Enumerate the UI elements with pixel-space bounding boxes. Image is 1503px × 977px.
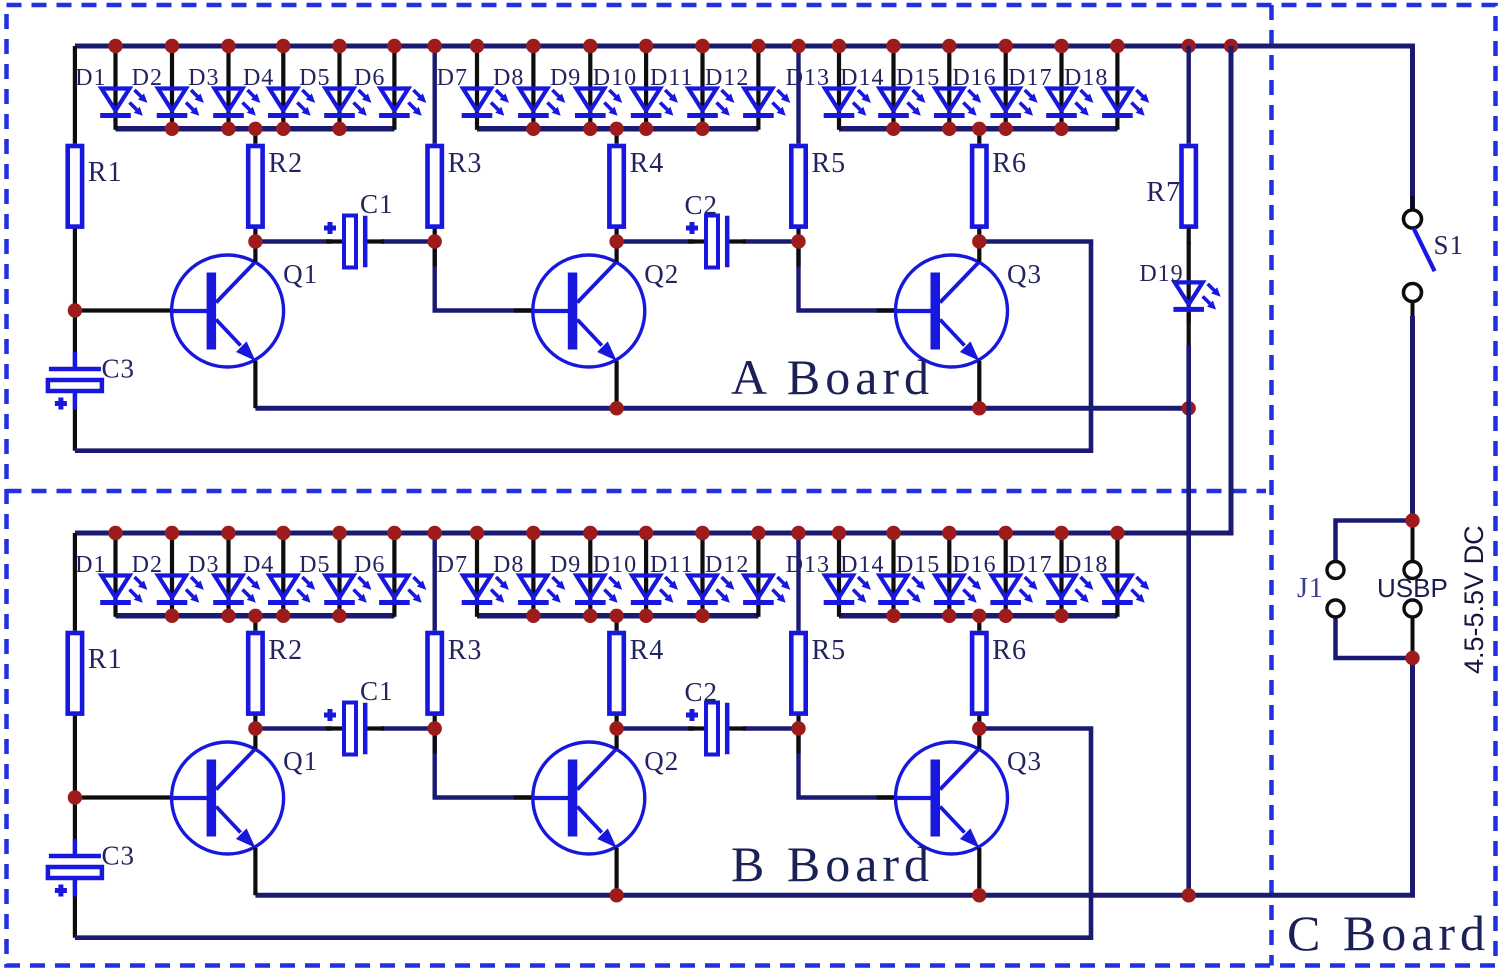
node: B cathode rail junction x=949.3: [942, 609, 956, 623]
wire: A feedback loop R6 node, right, down and along bottom: [75, 242, 1091, 451]
node: B cathode rail junction x=255.4: [248, 609, 262, 623]
svg-text:R3: R3: [448, 148, 483, 179]
svg-text:C3: C3: [102, 354, 136, 384]
wire: A LED group 2 cathode rail: [477, 126, 758, 132]
node: B top rail junction x=590.3: [583, 526, 597, 540]
node: B top rail junction x=477: [470, 526, 484, 540]
svg-text:D17: D17: [1008, 552, 1052, 578]
node: A cathode rail junction x=702.5: [695, 122, 709, 136]
node: J1 top junction: [1405, 513, 1419, 527]
svg-text:C1: C1: [360, 189, 394, 219]
wire: A R6 leads: [977, 129, 981, 144]
node: A collector row junction x=798.5: [791, 234, 805, 248]
svg-text:D8: D8: [493, 552, 524, 578]
svg-text:R6: R6: [992, 148, 1027, 179]
node: B top rail junction x=1117.4: [1110, 526, 1124, 540]
resistor R5 (A board): [791, 146, 846, 227]
node: B collector row junction x=979.3: [972, 721, 986, 735]
svg-text:R6: R6: [992, 635, 1027, 666]
wire: B board V+ top rail fed from A board rail: [75, 46, 1231, 533]
node: B top rail junction x=533.4: [526, 526, 540, 540]
LED D7 (B board): [437, 535, 509, 617]
node: A collector row junction x=434.7: [428, 234, 442, 248]
wire: B C3 bottom lead to bottom feedback wire: [73, 897, 77, 938]
LED D12 (B board): [705, 535, 790, 617]
LED D4 (B board): [243, 535, 315, 617]
svg-text:D15: D15: [896, 65, 940, 91]
wire: B R2 leads: [253, 616, 257, 631]
wire: A coupling C1 net from Q1 collector to R3 bottom: [255, 239, 332, 243]
LED D6 (B board): [354, 535, 426, 617]
node: A emitter rail junction x=616.6: [609, 401, 623, 415]
capacitor C3 (B board, polarized): [48, 839, 135, 897]
svg-text:D1: D1: [75, 65, 106, 91]
node: B top rail junction x=893.5: [886, 526, 900, 540]
svg-text:J1: J1: [1297, 573, 1324, 604]
resistor R3 (B board): [428, 633, 483, 714]
node: A top rail junction x=590.3: [583, 39, 597, 53]
wire: A R1 bottom lead to base node: [73, 228, 77, 311]
LED D5 (B board): [299, 535, 371, 617]
wire: B emitter ground rail: [255, 658, 1412, 895]
LED D4 (A board): [243, 48, 315, 130]
svg-text:D5: D5: [299, 65, 330, 91]
svg-text:R7: R7: [1146, 177, 1181, 208]
wire: A R3 bottom lead: [433, 228, 437, 242]
node: B cathode rail junction x=533.4: [526, 609, 540, 623]
transistor Q3 (B board, NPN): [896, 728, 1043, 895]
wire: B R5 top lead from rail: [796, 533, 800, 631]
capacitor C1 (A board, polarized): [324, 189, 394, 268]
svg-text:4.5-5.5V DC: 4.5-5.5V DC: [1459, 525, 1489, 674]
node: B cathode rail junction x=283.3: [276, 609, 290, 623]
svg-text:D7: D7: [437, 552, 468, 578]
wire: B base wire of Q1: [75, 795, 175, 799]
svg-text:D11: D11: [650, 65, 693, 91]
svg-text:D16: D16: [952, 65, 996, 91]
node: A top rail junction x=646.1: [639, 39, 653, 53]
LED D18 (B board): [1064, 535, 1149, 617]
svg-text:D12: D12: [705, 65, 749, 91]
wire: B feedback loop R6 node, right, down and along bottom: [75, 729, 1091, 938]
wire: B coupling C2 net from Q2 collector to R5 bottom: [617, 726, 694, 730]
resistor R4 (A board): [609, 146, 664, 227]
LED D3 (B board): [188, 535, 260, 617]
svg-text:D10: D10: [593, 552, 637, 578]
node: B top rail junction x=798.5: [791, 526, 805, 540]
wire: A R4 leads: [614, 129, 618, 144]
svg-text:C2: C2: [685, 677, 719, 707]
svg-text:R5: R5: [812, 148, 847, 179]
node: A Q1 base junction: [68, 303, 82, 317]
node: A collector row junction x=616.6: [609, 234, 623, 248]
node: A cathode rail junction x=616.6: [609, 122, 623, 136]
node: B cathode rail junction x=616.6: [609, 609, 623, 623]
connector J1 (C board): [1297, 521, 1413, 659]
resistor R2 (A board): [248, 146, 303, 227]
LED D12 (A board): [705, 48, 790, 130]
node: B top rail junction x=1005.7: [999, 526, 1013, 540]
svg-text:D9: D9: [550, 552, 581, 578]
svg-text:D1: D1: [75, 552, 106, 578]
node: A top rail junction x=702.5: [695, 39, 709, 53]
svg-text:D6: D6: [354, 552, 385, 578]
resistor R5 (B board): [791, 633, 846, 714]
node: B top rail junction x=172: [165, 526, 179, 540]
node: B collector row junction x=434.7: [428, 721, 442, 735]
node: B top rail junction x=758.4: [751, 526, 765, 540]
svg-text:R1: R1: [88, 644, 123, 675]
transistor Q2 (B board, NPN): [533, 728, 680, 895]
node: A top rail junction x=1005.7: [999, 39, 1013, 53]
resistor R6 (B board): [972, 633, 1027, 714]
LED D2 (A board): [132, 48, 204, 130]
node: A emitter rail junction x=1188.7: [1182, 401, 1196, 415]
LED D10 (A board): [593, 48, 678, 130]
wire: B LED group 1 cathode rail: [116, 613, 395, 619]
wire: S1 to J1/USBP positive node: [1410, 316, 1415, 521]
svg-text:Q1: Q1: [283, 259, 318, 289]
wire: A R5 bottom node to Q3 base: [799, 242, 899, 311]
LED D16 (B board): [952, 535, 1037, 617]
node: B top rail junction x=949.3: [942, 526, 956, 540]
node: B collector row junction x=616.6: [609, 721, 623, 735]
node: B cathode rail junction x=702.5: [695, 609, 709, 623]
wire: A base wire of Q1: [75, 308, 175, 312]
node: J1 bottom junction: [1405, 651, 1419, 665]
transistor Q3 (A board, NPN): [896, 241, 1043, 408]
node: A cathode rail junction x=1005.7: [999, 122, 1013, 136]
node: A emitter rail junction x=979.3: [972, 401, 986, 415]
wire: B LED group 3 cathode rail: [839, 613, 1117, 619]
LED D8 (A board): [493, 48, 565, 130]
svg-text:D19: D19: [1139, 261, 1183, 287]
svg-text:D12: D12: [705, 552, 749, 578]
node: B top rail junction x=646.1: [639, 526, 653, 540]
wire: B R3 bottom lead: [433, 715, 437, 729]
wire: R7 top lead from rail: [1186, 46, 1190, 144]
svg-text:Q1: Q1: [283, 746, 318, 776]
node: A cathode rail junction x=949.3: [942, 122, 956, 136]
svg-text:D3: D3: [188, 552, 219, 578]
node: B cathode rail junction x=339.5: [332, 609, 346, 623]
node: A top rail junction x=283.3: [276, 39, 290, 53]
wire: B left vertical R1 top lead: [73, 533, 77, 631]
svg-text:D17: D17: [1008, 65, 1052, 91]
svg-text:D13: D13: [786, 552, 830, 578]
svg-text:C1: C1: [360, 676, 394, 706]
LED D17 (B board): [1008, 535, 1093, 617]
wire: B R5 bottom lead: [796, 715, 800, 729]
svg-text:D2: D2: [132, 65, 163, 91]
wire: A LED group 1 cathode rail: [116, 126, 395, 132]
LED D14 (B board): [840, 535, 925, 617]
connector USBP pads (C board): [1377, 524, 1448, 654]
wire: B R1 bottom lead to base node: [73, 715, 77, 798]
LED D14 (A board): [840, 48, 925, 130]
node: B collector row junction x=798.5: [791, 721, 805, 735]
svg-text:R1: R1: [88, 157, 123, 188]
node: A top rail junction x=1117.4: [1110, 39, 1124, 53]
wire: R7 bottom lead to D19: [1187, 228, 1191, 245]
svg-text:D4: D4: [243, 65, 274, 91]
node: A cathode rail junction x=283.3: [276, 122, 290, 136]
capacitor C1 (B board, polarized): [324, 676, 394, 755]
C board left dashed line: [1269, 5, 1274, 966]
LED D7 (A board): [437, 48, 509, 130]
node: A cathode rail junction x=1061.5: [1054, 122, 1068, 136]
wire: A R5 bottom lead: [796, 228, 800, 242]
node: A top rail junction x=949.3: [942, 39, 956, 53]
wire: D19 cathode to ground rail and down to B board ground: [1187, 313, 1191, 348]
node: B Q1 base junction: [68, 790, 82, 804]
node: A top rail junction x=533.4: [526, 39, 540, 53]
resistor R6 (A board): [972, 146, 1027, 227]
LED D6 (A board): [354, 48, 426, 130]
wire: A board V+ top rail and drop to switch S1: [75, 46, 1413, 211]
svg-text:R2: R2: [268, 635, 303, 666]
wire: A R3 top lead from rail: [433, 46, 437, 144]
svg-text:D7: D7: [437, 65, 468, 91]
node: A cathode rail junction x=533.4: [526, 122, 540, 136]
LED D19 (A board): [1139, 242, 1220, 324]
wire: A base node to C3 top lead: [73, 311, 77, 353]
resistor R2 (B board): [248, 633, 303, 714]
node: A top rail junction x=339.5: [332, 39, 346, 53]
node: B top rail junction x=434.7: [428, 526, 442, 540]
wire: B LED group 2 cathode rail: [477, 613, 758, 619]
LED D15 (A board): [896, 48, 981, 130]
resistor R1 (A board): [68, 146, 123, 227]
node: A cathode rail junction x=979.3: [972, 122, 986, 136]
svg-text:A Board: A Board: [731, 349, 934, 405]
node: A top rail junction x=434.7: [428, 39, 442, 53]
node: A top rail junction x=798.5: [791, 39, 805, 53]
wire: A R2 leads: [253, 129, 257, 144]
svg-text:R5: R5: [812, 635, 847, 666]
LED D1 (B board): [75, 535, 147, 617]
resistor R4 (B board): [609, 633, 664, 714]
node: A collector row junction x=255.4: [248, 234, 262, 248]
svg-text:D13: D13: [786, 65, 830, 91]
wire: A C3 bottom lead to bottom feedback wire: [73, 410, 77, 451]
svg-text:C2: C2: [685, 190, 719, 220]
svg-text:D5: D5: [299, 552, 330, 578]
node: A cathode rail junction x=228.5: [221, 122, 235, 136]
node: A top rail junction x=228.5: [221, 39, 235, 53]
svg-text:D18: D18: [1064, 65, 1108, 91]
LED D13 (A board): [786, 48, 871, 130]
svg-text:C3: C3: [102, 841, 136, 871]
LED D1 (A board): [75, 48, 147, 130]
wire: B R4 leads: [614, 616, 618, 631]
node: B top rail junction x=1061.5: [1054, 526, 1068, 540]
LED D5 (A board): [299, 48, 371, 130]
svg-text:B Board: B Board: [731, 836, 934, 892]
switch S1 (C board): [1404, 196, 1465, 318]
LED D18 (A board): [1064, 48, 1149, 130]
wire: B R6 leads: [977, 616, 981, 631]
node: B top rail junction x=228.5: [221, 526, 235, 540]
node: B top rail junction x=839: [832, 526, 846, 540]
node: A cathode rail junction x=590.3: [583, 122, 597, 136]
LED D16 (A board): [952, 48, 1037, 130]
wire: B coupling C1 net from Q1 collector to R3 bottom: [255, 726, 332, 730]
LED D8 (B board): [493, 535, 565, 617]
node: B emitter rail junction x=979.3: [972, 888, 986, 902]
transistor Q2 (A board, NPN): [533, 241, 680, 408]
node: B emitter rail junction x=1188.7: [1182, 888, 1196, 902]
svg-text:R4: R4: [630, 148, 665, 179]
svg-text:D14: D14: [840, 552, 884, 578]
node: A top rail junction x=1061.5: [1054, 39, 1068, 53]
node: B cathode rail junction x=893.5: [886, 609, 900, 623]
svg-text:Q2: Q2: [644, 746, 679, 776]
node: B top rail junction x=394.4: [387, 526, 401, 540]
svg-text:R2: R2: [268, 148, 303, 179]
wire: A left vertical R1 top lead: [73, 46, 77, 144]
svg-text:D15: D15: [896, 552, 940, 578]
node: A cathode rail junction x=893.5: [886, 122, 900, 136]
wire: A emitter ground rail: [255, 406, 1188, 411]
capacitor C2 (A board, polarized): [685, 190, 747, 268]
svg-text:D3: D3: [188, 65, 219, 91]
LED D13 (B board): [786, 535, 871, 617]
svg-text:D10: D10: [593, 65, 637, 91]
svg-text:Q3: Q3: [1007, 746, 1042, 776]
node: B top rail junction x=283.3: [276, 526, 290, 540]
svg-text:D18: D18: [1064, 552, 1108, 578]
node: B cathode rail junction x=1005.7: [999, 609, 1013, 623]
svg-text:D9: D9: [550, 65, 581, 91]
node: A cathode rail junction x=172: [165, 122, 179, 136]
svg-text:Q3: Q3: [1007, 259, 1042, 289]
transistor Q1 (B board, NPN): [172, 728, 319, 895]
LED D9 (B board): [550, 535, 622, 617]
resistor R3 (A board): [428, 146, 483, 227]
node: A top rail junction x=758.4: [751, 39, 765, 53]
LED D3 (A board): [188, 48, 260, 130]
capacitor C2 (B board, polarized): [685, 677, 747, 755]
svg-text:S1: S1: [1434, 230, 1465, 260]
wire: B R3 bottom node to Q2 base: [435, 729, 536, 798]
LED D17 (A board): [1008, 48, 1093, 130]
wire: A R3 bottom node to Q2 base: [435, 242, 536, 311]
node: A top rail junction x=115.5: [108, 39, 122, 53]
transistor Q1 (A board, NPN): [172, 241, 319, 408]
node: A top rail junction x=893.5: [886, 39, 900, 53]
LED D10 (B board): [593, 535, 678, 617]
node: A top rail junction x=477: [470, 39, 484, 53]
svg-text:C Board: C Board: [1287, 905, 1490, 961]
node: B top rail junction x=702.5: [695, 526, 709, 540]
node: B top rail junction x=115.5: [108, 526, 122, 540]
node: B cathode rail junction x=172: [165, 609, 179, 623]
wire: A coupling C2 net from Q2 collector to R5 bottom: [617, 239, 694, 243]
node: B cathode rail junction x=228.5: [221, 609, 235, 623]
node: B emitter rail junction x=616.6: [609, 888, 623, 902]
node: B cathode rail junction x=979.3: [972, 609, 986, 623]
LED D15 (B board): [896, 535, 981, 617]
LED D11 (A board): [650, 48, 734, 130]
svg-text:USBP: USBP: [1377, 573, 1448, 603]
wire: B R3 top lead from rail: [433, 533, 437, 631]
resistor R1 (B board): [68, 633, 123, 714]
resistor R7 (A board): [1146, 146, 1196, 227]
node: B cathode rail junction x=590.3: [583, 609, 597, 623]
node: A collector row junction x=979.3: [972, 234, 986, 248]
node: B cathode rail junction x=1061.5: [1054, 609, 1068, 623]
LED D11 (B board): [650, 535, 734, 617]
wire: A LED group 3 cathode rail: [839, 126, 1117, 132]
node: A top rail junction x=1188.7: [1182, 39, 1196, 53]
node: A cathode rail junction x=646.1: [639, 122, 653, 136]
node: A top rail junction x=172: [165, 39, 179, 53]
svg-text:D14: D14: [840, 65, 884, 91]
node: A cathode rail junction x=339.5: [332, 122, 346, 136]
node: A cathode rail junction x=255.4: [248, 122, 262, 136]
wire: B base node to C3 top lead: [73, 798, 77, 840]
LED D9 (A board): [550, 48, 622, 130]
node: B collector row junction x=255.4: [248, 721, 262, 735]
svg-text:D11: D11: [650, 552, 693, 578]
svg-text:D16: D16: [952, 552, 996, 578]
wire: A R5 top lead from rail: [796, 46, 800, 144]
svg-text:D4: D4: [243, 552, 274, 578]
LED D2 (B board): [132, 535, 204, 617]
svg-text:D8: D8: [493, 65, 524, 91]
wire: B R5 bottom node to Q3 base: [799, 729, 899, 798]
node: B cathode rail junction x=646.1: [639, 609, 653, 623]
capacitor C3 (A board, polarized): [48, 352, 135, 410]
svg-text:D6: D6: [354, 65, 385, 91]
node: B top rail junction x=339.5: [332, 526, 346, 540]
svg-text:R4: R4: [630, 635, 665, 666]
A/B board divider dashed line: [7, 489, 1267, 494]
svg-text:D2: D2: [132, 552, 163, 578]
node: A top rail junction x=1231: [1224, 39, 1238, 53]
svg-text:R3: R3: [448, 635, 483, 666]
svg-text:Q2: Q2: [644, 259, 679, 289]
node: A top rail junction x=839: [832, 39, 846, 53]
node: A top rail junction x=394.4: [387, 39, 401, 53]
